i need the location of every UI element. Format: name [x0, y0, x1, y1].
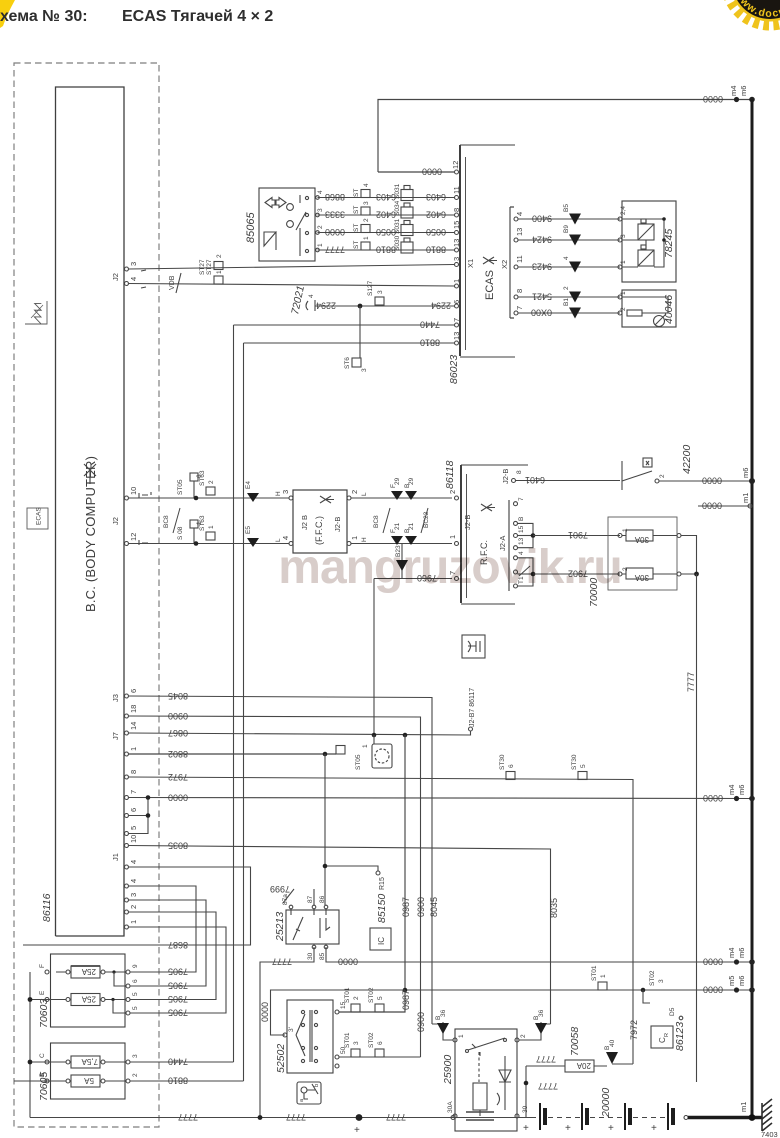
svg-text:ST: ST	[353, 189, 360, 197]
svg-text:1: 1	[362, 744, 369, 748]
fuse box 70603	[51, 954, 126, 1027]
wire 8810 row top	[244, 342, 455, 344]
wire 0000 m1	[698, 505, 752, 507]
wire 9424	[518, 239, 620, 241]
K mark above B.C. label	[84, 464, 96, 484]
svg-text:8810: 8810	[426, 245, 446, 255]
svg-text:4: 4	[129, 277, 138, 281]
svg-text:11: 11	[515, 255, 524, 263]
svg-text:C: C	[39, 1053, 46, 1058]
svg-text:40: 40	[609, 1039, 616, 1047]
control unit 85065	[259, 188, 315, 261]
svg-text:0900: 0900	[416, 897, 426, 917]
svg-text:15: 15	[518, 525, 525, 533]
svg-text:mangruzovik.ru: mangruzovik.ru	[278, 541, 621, 594]
svg-text:6402: 6402	[426, 210, 446, 220]
fuse 25A no1	[56, 966, 126, 978]
riser from 7960 to 0867 row	[373, 579, 375, 736]
fuse 30A upper	[626, 530, 653, 541]
connector Y-plug 86117	[462, 635, 485, 658]
ST plugs on rows	[361, 190, 370, 251]
wire 7901	[533, 535, 620, 537]
svg-text:2: 2	[350, 490, 359, 494]
svg-text:8045: 8045	[168, 691, 188, 701]
svg-text:8868: 8868	[325, 192, 345, 202]
svg-text:5: 5	[132, 1006, 139, 1010]
svg-text:0000: 0000	[703, 985, 723, 995]
junction dots rows H L	[194, 496, 199, 501]
svg-text:86118: 86118	[444, 460, 456, 489]
wire 8045 row	[129, 696, 433, 1024]
diodes F21 B21	[391, 536, 403, 545]
riser 0900 tail to pin 50	[339, 1056, 421, 1058]
svg-text:21: 21	[394, 522, 401, 530]
wire 8687 link	[23, 867, 251, 945]
svg-text:8: 8	[516, 470, 523, 474]
svg-text:ST02: ST02	[368, 987, 375, 1003]
svg-text:J2: J2	[111, 273, 120, 281]
svg-text:5: 5	[129, 826, 138, 830]
svg-text:7777: 7777	[538, 1081, 558, 1091]
svg-text:X1: X1	[466, 259, 475, 268]
svg-text:21: 21	[408, 522, 415, 530]
svg-text:12: 12	[451, 161, 460, 169]
svg-text:3: 3	[361, 368, 368, 372]
resistor flag symbol top left	[25, 301, 49, 324]
svg-text:J2 B: J2 B	[300, 515, 309, 530]
svg-text:7: 7	[518, 497, 525, 501]
svg-text:ST27: ST27	[199, 259, 206, 275]
svg-text:1: 1	[129, 920, 138, 924]
wire 5421	[518, 296, 620, 298]
svg-text:E: E	[39, 990, 46, 995]
svg-text:30A: 30A	[447, 1101, 454, 1113]
svg-text:6: 6	[129, 689, 138, 693]
plug ST02-3 at node 643	[643, 990, 650, 1003]
svg-text:36: 36	[440, 1009, 447, 1017]
svg-text:4: 4	[317, 190, 324, 194]
svg-text:9: 9	[132, 964, 139, 968]
svg-text:7,5A: 7,5A	[81, 1057, 98, 1066]
svg-text:0000: 0000	[325, 227, 345, 237]
svg-text:29: 29	[408, 477, 415, 485]
svg-text:0000: 0000	[422, 167, 442, 177]
svg-text:3: 3	[317, 208, 324, 212]
stub joining pins 6 5 to 0000	[129, 798, 149, 834]
svg-text:7777: 7777	[686, 672, 696, 692]
svg-text:BC8: BC8	[163, 515, 170, 528]
lamp plug ST05-1	[372, 733, 377, 738]
top feed line 0000 to bus	[378, 100, 752, 173]
svg-text:6403: 6403	[376, 192, 396, 202]
F.F.C. unit box	[293, 490, 347, 553]
svg-text:1: 1	[363, 236, 370, 240]
svg-text:7972: 7972	[168, 772, 188, 782]
diodes F29 B29	[391, 491, 403, 500]
diode E5	[247, 538, 259, 547]
svg-text:0000: 0000	[702, 476, 722, 486]
wire 2294 row	[306, 300, 454, 311]
pin numbers of B.C. connectors	[129, 262, 138, 924]
svg-text:m6: m6	[739, 86, 748, 96]
svg-text:78245: 78245	[663, 229, 675, 258]
svg-text:7: 7	[129, 790, 138, 794]
svg-text:86116: 86116	[41, 893, 53, 922]
ignition switch 52502	[287, 1000, 333, 1073]
svg-text:ST: ST	[353, 241, 360, 249]
wire labels 8868 3333 0000 7777	[325, 192, 345, 255]
svg-text:2,4: 2,4	[620, 206, 627, 215]
svg-text:VDB: VDB	[169, 275, 176, 290]
plugs ST01-2 ST02-5 on 0987	[351, 1004, 360, 1012]
85065 output rows to X1	[318, 198, 455, 251]
node m4 m6 row 798	[734, 796, 739, 801]
svg-text:хема № 30:: хема № 30:	[0, 8, 88, 25]
diode B40	[594, 1064, 633, 1066]
svg-text:13: 13	[515, 228, 524, 236]
svg-text:2: 2	[659, 474, 666, 478]
svg-text:8035: 8035	[549, 898, 559, 918]
svg-text:86: 86	[319, 895, 326, 903]
svg-text:ECAS: ECAS	[484, 270, 496, 300]
wire 0000 row to bus	[129, 798, 753, 799]
svg-text:7905: 7905	[168, 967, 188, 977]
X2 pin circles and numbers	[514, 217, 518, 315]
svg-text:ST27: ST27	[206, 259, 213, 275]
ST27 plugs	[214, 262, 223, 270]
svg-text:10: 10	[129, 835, 138, 843]
svg-text:J2-B7 86117: J2-B7 86117	[469, 688, 476, 727]
svg-text:1: 1	[600, 974, 607, 978]
svg-text:2: 2	[317, 225, 324, 229]
svg-text:ST6: ST6	[344, 357, 351, 369]
fuse 25A no2	[32, 994, 126, 1006]
svg-text:B: B	[39, 1073, 46, 1077]
wire 8810 bottom	[130, 1080, 244, 1082]
svg-text:ST: ST	[353, 224, 360, 232]
svg-text:5: 5	[132, 992, 139, 996]
plug ST05-6 above row H	[190, 473, 198, 481]
plug IC box	[370, 928, 391, 950]
svg-text:L: L	[361, 492, 368, 496]
wire 0X00	[518, 312, 620, 314]
svg-text:BC8: BC8	[373, 515, 380, 528]
plug S08 row L	[190, 520, 198, 528]
svg-text:25A: 25A	[81, 995, 96, 1004]
R.F.C. pins	[455, 496, 459, 581]
riser 0987	[404, 735, 406, 990]
diodes on X2 wires	[569, 214, 581, 319]
svg-text:D5: D5	[669, 1007, 676, 1016]
svg-text:ST02: ST02	[368, 1032, 375, 1048]
svg-text:m1: m1	[741, 493, 750, 503]
connector J2-A bracket	[508, 500, 510, 591]
svg-text:2294: 2294	[316, 301, 336, 311]
svg-text:S031: S031	[394, 218, 401, 234]
riser 8810	[243, 343, 245, 1081]
svg-text:0867: 0867	[168, 728, 188, 738]
body computer U-B.C. outline	[56, 87, 125, 936]
main ground bus line right	[751, 100, 754, 1118]
plugs ST63	[206, 487, 215, 495]
svg-text:2: 2	[620, 307, 627, 311]
diode B36 right	[519, 1022, 551, 1040]
svg-text:0000: 0000	[703, 793, 723, 803]
svg-text:7901: 7901	[568, 530, 588, 540]
svg-text:R: R	[664, 1033, 670, 1037]
svg-text:0000: 0000	[703, 957, 723, 967]
VDB switch on rows	[176, 273, 181, 293]
70603 pins	[45, 970, 130, 1015]
svg-text:3333: 3333	[325, 210, 345, 220]
plugs ST01-3 ST02-6 on 0900	[351, 1049, 360, 1057]
fuse box 70605	[51, 1043, 126, 1099]
svg-text:m6: m6	[737, 948, 746, 958]
svg-text:2: 2	[448, 490, 457, 494]
svg-text:X2: X2	[500, 260, 509, 269]
svg-text:70058: 70058	[569, 1027, 581, 1056]
svg-text:6: 6	[129, 808, 138, 812]
wire 8035 row	[129, 846, 551, 1025]
plugs ST30 on 7972	[506, 772, 515, 780]
svg-text:1: 1	[317, 243, 324, 247]
svg-text:14: 14	[129, 722, 138, 730]
svg-text:b: b	[314, 1084, 320, 1087]
switch 42200	[622, 458, 652, 490]
svg-text:7403: 7403	[761, 1130, 778, 1138]
svg-text:25213: 25213	[274, 912, 286, 942]
wire 0000 row 962 to bus	[326, 947, 752, 962]
svg-text:ECAS Тягачей 4 × 2: ECAS Тягачей 4 × 2	[122, 8, 273, 25]
svg-text:2: 2	[208, 480, 215, 484]
svg-text:52502: 52502	[275, 1044, 287, 1073]
wire rows F.F.C. to R.F.C.	[351, 497, 452, 499]
svg-text:0050: 0050	[426, 227, 446, 237]
wire labels right 6403 6402 0050 8810	[426, 192, 446, 255]
svg-text:3: 3	[363, 201, 370, 205]
feeder line left	[29, 972, 31, 1118]
svg-text:42200: 42200	[681, 445, 693, 474]
svg-text:1: 1	[458, 1034, 465, 1038]
svg-text:8810: 8810	[376, 245, 396, 255]
svg-text:1: 1	[620, 260, 627, 264]
svg-text:+: +	[651, 1123, 657, 1134]
svg-text:3: 3	[353, 1041, 360, 1045]
svg-text:8045: 8045	[429, 897, 439, 917]
wire 7777 from 25213-30	[260, 947, 314, 1118]
yellow corner mark	[0, 0, 15, 28]
key plug box	[297, 1082, 321, 1104]
svg-text:1: 1	[216, 270, 223, 274]
svg-text:0987: 0987	[401, 990, 411, 1010]
fuse housing box	[608, 517, 677, 590]
wires 7905 x4	[129, 886, 227, 1013]
wire 9423	[518, 266, 620, 268]
svg-text:B9: B9	[563, 225, 570, 233]
svg-text:8810: 8810	[168, 1076, 188, 1086]
svg-text:4: 4	[308, 294, 315, 298]
svg-text:1: 1	[620, 291, 627, 295]
svg-text:7777: 7777	[178, 1112, 198, 1122]
chassis ground symbol	[762, 1099, 772, 1131]
svg-text:6402: 6402	[376, 210, 396, 220]
gold gear badge top right	[726, 0, 780, 25]
plug square on 8802	[336, 746, 345, 755]
ECAS unit connector X1	[460, 145, 515, 357]
svg-text:3: 3	[377, 290, 384, 294]
svg-text:8: 8	[515, 289, 524, 293]
wire 7902	[533, 573, 620, 575]
wire labels 6403 6402 0050 8810 mid	[376, 192, 396, 255]
svg-text:30: 30	[307, 952, 314, 960]
ST27-3 stub on 2294	[375, 297, 384, 305]
svg-text:25A: 25A	[81, 967, 96, 976]
svg-text:2: 2	[563, 286, 570, 290]
svg-text:85065: 85065	[245, 212, 257, 243]
svg-text:3: 3	[129, 893, 138, 897]
svg-text:m6: m6	[737, 976, 746, 986]
wire 7960	[374, 578, 452, 580]
svg-text:ST01: ST01	[344, 987, 351, 1003]
svg-text:0000: 0000	[703, 94, 723, 104]
svg-text:3: 3	[129, 262, 138, 266]
70605 pins	[45, 1060, 130, 1083]
svg-text:J2-B: J2-B	[501, 469, 510, 484]
svg-text:2: 2	[132, 1073, 139, 1077]
svg-text:1: 1	[129, 747, 138, 751]
svg-text:J2-B: J2-B	[333, 517, 342, 532]
svg-text:0987: 0987	[401, 897, 411, 917]
S03x plugs	[401, 186, 413, 254]
svg-text:m5: m5	[727, 976, 736, 986]
wire row 269 J2-3 to X1-3	[129, 265, 455, 287]
diode B23 stub down to 7960	[401, 544, 403, 579]
svg-text:ST63: ST63	[199, 515, 206, 531]
svg-text:J2: J2	[111, 517, 120, 525]
svg-text:20A: 20A	[576, 1061, 591, 1070]
svg-text:S030: S030	[394, 235, 401, 251]
svg-text:9400: 9400	[532, 214, 552, 224]
branch 0000 down to ignition 3'	[271, 990, 406, 1035]
svg-text:30A: 30A	[634, 535, 649, 544]
svg-text:0000: 0000	[338, 957, 358, 967]
riser 0987 tail to pin 15	[339, 990, 405, 1012]
svg-text:m1: m1	[739, 1102, 748, 1112]
svg-text:ST05: ST05	[355, 754, 362, 770]
svg-text:+: +	[565, 1123, 571, 1134]
svg-text:4: 4	[563, 256, 570, 260]
svg-text:7905: 7905	[168, 981, 188, 991]
svg-text:87: 87	[307, 895, 314, 903]
node m4 m6 top	[734, 97, 739, 102]
relay 25213	[286, 910, 339, 944]
svg-text:ECAS: ECAS	[36, 507, 43, 525]
svg-text:S034: S034	[394, 200, 401, 216]
relay 25900	[455, 1029, 517, 1131]
svg-text:4: 4	[515, 212, 524, 216]
svg-text:30A: 30A	[634, 573, 649, 582]
bus of pins B 15 13	[518, 523, 534, 586]
svg-text:6401: 6401	[525, 475, 545, 485]
svg-text:S127: S127	[367, 280, 374, 296]
junction to 7777 riser	[681, 536, 697, 575]
svg-text:J3: J3	[111, 694, 120, 702]
wire 0900 row	[129, 716, 421, 1057]
svg-text:0000: 0000	[260, 1002, 270, 1022]
svg-text:2: 2	[129, 905, 138, 909]
connector pins of B.C.	[125, 267, 129, 929]
svg-text:J1: J1	[111, 853, 120, 861]
X1 pin numbers	[452, 186, 461, 340]
solenoid valve block 78245	[622, 201, 676, 282]
plug ST01-1 on row 990	[598, 982, 607, 990]
wire 0867 row	[129, 731, 471, 735]
svg-text:0000: 0000	[168, 793, 188, 803]
svg-text:E5: E5	[245, 526, 252, 534]
riser 7440	[233, 325, 235, 1062]
svg-text:m4: m4	[729, 86, 738, 96]
svg-text:8035: 8035	[168, 841, 188, 851]
svg-text:7777: 7777	[286, 1112, 306, 1122]
svg-text:70603: 70603	[38, 999, 50, 1028]
svg-text:29: 29	[394, 477, 401, 485]
svg-text:J7: J7	[111, 732, 120, 740]
ECAS small box	[27, 508, 48, 529]
svg-text:S031: S031	[394, 183, 401, 199]
branch R15	[325, 754, 378, 905]
svg-text:+: +	[354, 1125, 360, 1136]
svg-text:2: 2	[363, 218, 370, 222]
fuse 7.5A	[32, 1056, 126, 1068]
batteries	[540, 1103, 673, 1130]
svg-text:4: 4	[129, 860, 138, 864]
svg-text:ST: ST	[353, 206, 360, 214]
svg-text:7: 7	[515, 306, 524, 310]
svg-text:3': 3'	[288, 1027, 295, 1032]
svg-text:72021: 72021	[289, 285, 307, 316]
diode E4	[247, 493, 259, 502]
svg-text:ST02: ST02	[649, 970, 656, 986]
svg-text:+: +	[608, 1123, 614, 1134]
svg-text:85: 85	[319, 952, 326, 960]
svg-text:B: B	[518, 517, 525, 521]
svg-text:8802: 8802	[168, 749, 188, 759]
svg-text:5: 5	[580, 764, 587, 768]
svg-text:ST05: ST05	[177, 479, 184, 495]
svg-text:5: 5	[377, 996, 384, 1000]
svg-text:20000: 20000	[600, 1088, 612, 1118]
svg-text:87a: 87a	[282, 894, 289, 905]
wire 0000 row 990 to bus	[405, 989, 752, 991]
svg-text:B1: B1	[563, 298, 570, 306]
svg-text:4: 4	[281, 536, 290, 540]
svg-text:7777: 7777	[536, 1054, 556, 1064]
fuse 30A lower	[626, 568, 653, 579]
svg-text:7905: 7905	[168, 1008, 188, 1018]
svg-text:ST30: ST30	[571, 754, 578, 770]
svg-text:7905: 7905	[168, 994, 188, 1004]
svg-text:86023: 86023	[448, 355, 460, 384]
svg-text:7999: 7999	[270, 884, 290, 894]
svg-text:F: F	[39, 964, 46, 968]
svg-text:1: 1	[208, 525, 215, 529]
svg-text:E4: E4	[245, 481, 252, 489]
svg-text:0050: 0050	[376, 227, 396, 237]
svg-text:0X00: 0X00	[531, 308, 552, 318]
wire 8802 row	[129, 753, 337, 755]
dashed enclosure of body computer	[14, 63, 159, 1127]
svg-text:6: 6	[377, 1041, 384, 1045]
